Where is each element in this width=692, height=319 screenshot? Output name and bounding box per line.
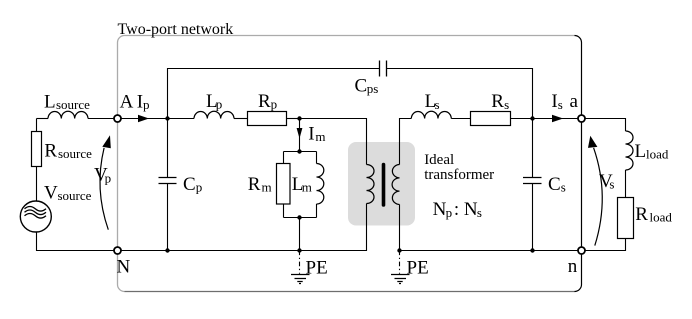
label A and Ip xyxy=(120,91,150,112)
arrowhead Vp xyxy=(102,135,111,148)
inductor Lp xyxy=(194,111,234,118)
svg-text:s: s xyxy=(609,177,614,192)
wire: Rload to node n xyxy=(585,239,626,251)
svg-text:s: s xyxy=(477,205,482,220)
node junction (bottom of Rm Lm parallel) xyxy=(297,215,301,219)
svg-text:p: p xyxy=(446,205,453,220)
label Is and a xyxy=(551,91,578,112)
node junction (secondary PE tap) xyxy=(397,248,401,252)
node N (open circle) xyxy=(114,247,121,254)
wire: junction to node a xyxy=(533,118,579,120)
wire: transformer secondary bottom to PE tap xyxy=(399,205,401,251)
label Vp xyxy=(94,165,111,186)
label Im xyxy=(308,124,325,145)
current arrow Im xyxy=(297,128,303,139)
svg-text:s: s xyxy=(558,97,563,112)
node junction (Cp top tap) xyxy=(165,116,169,120)
voltage arrow Vs (curved) xyxy=(594,148,603,246)
svg-text:N: N xyxy=(117,257,131,278)
svg-text:N: N xyxy=(433,199,447,220)
label Lload xyxy=(635,141,669,162)
resistor Rp xyxy=(248,112,287,126)
svg-text:m: m xyxy=(262,180,272,195)
wire: magnetizing branch down xyxy=(299,119,301,152)
label N xyxy=(117,257,131,278)
label Rs xyxy=(491,91,509,112)
svg-text:a: a xyxy=(570,91,579,112)
resistor Rload xyxy=(618,198,634,239)
ground PE (secondary side) bars xyxy=(391,275,410,284)
svg-text:load: load xyxy=(646,146,669,161)
wire: Lp to Rp xyxy=(234,118,248,120)
label Rload xyxy=(635,204,672,225)
label Np : Ns xyxy=(433,199,482,220)
two-port network boundary box (gray top/left) xyxy=(118,36,575,292)
wire: Vsource to bottom-left corner and to node N xyxy=(37,232,115,251)
wire: Lm bottom lead xyxy=(316,204,318,218)
wire: Ls to Rs xyxy=(451,118,470,120)
wire: Cps branch left vertical xyxy=(168,69,380,119)
svg-text:s: s xyxy=(504,97,509,112)
svg-text:p: p xyxy=(196,180,203,195)
label Vs xyxy=(599,171,614,192)
label Cs xyxy=(548,174,566,195)
ground PE (secondary side) dashed stem xyxy=(399,251,401,274)
svg-text:Ideal: Ideal xyxy=(424,152,454,168)
label Vsource xyxy=(44,182,92,203)
wire: Rm top lead xyxy=(283,152,285,164)
node A (open circle) xyxy=(114,115,121,122)
wire: left rail top (corner down to Rsource) xyxy=(36,119,38,132)
wire: node a to load branch top xyxy=(585,119,626,132)
source Vsource (AC source circle) xyxy=(20,201,51,232)
inductor Lsource xyxy=(48,111,88,118)
wire: secondary top to Ls xyxy=(400,119,412,165)
label Lsource xyxy=(44,92,90,113)
transformer core bar xyxy=(382,165,386,206)
svg-text:R: R xyxy=(635,204,648,225)
wire: parallel loop bottom xyxy=(284,217,317,219)
svg-text:A: A xyxy=(120,91,134,112)
label Rm xyxy=(248,174,272,195)
svg-text:PE: PE xyxy=(306,257,328,278)
label Lm xyxy=(292,174,312,195)
svg-text:s: s xyxy=(435,97,440,112)
label Ideal transformer xyxy=(424,152,494,183)
inductor Lload xyxy=(626,131,634,170)
svg-text:L: L xyxy=(44,92,56,113)
wire: Rsource to Vsource xyxy=(36,167,38,202)
svg-text:R: R xyxy=(491,91,504,112)
resistor Rm xyxy=(277,164,291,205)
inductor Lm xyxy=(317,164,324,205)
svg-text:L: L xyxy=(635,141,647,162)
wire: Lsource to node A xyxy=(88,118,114,120)
label Ls xyxy=(425,91,440,112)
svg-text:p: p xyxy=(143,97,150,112)
node junction (primary PE tap) xyxy=(297,248,301,252)
svg-text:C: C xyxy=(183,174,196,195)
svg-text:p: p xyxy=(105,171,112,186)
svg-text:C: C xyxy=(548,174,561,195)
wire: junction to transformer primary top xyxy=(300,119,367,165)
svg-text:R: R xyxy=(258,91,271,112)
svg-text:I: I xyxy=(308,124,314,145)
ideal transformer shaded background xyxy=(348,142,415,226)
node junction (Cs bottom tap) xyxy=(530,248,534,252)
node junction (top of Rm Lm parallel) xyxy=(297,149,301,153)
svg-text:p: p xyxy=(216,97,223,112)
wire: bottom rail Cp tap to PE tap xyxy=(168,250,300,252)
wire: Cps to right vertical down to Rs junction xyxy=(387,69,533,119)
node a (open circle) xyxy=(578,115,585,122)
resistor Rsource xyxy=(32,132,42,167)
label Cp xyxy=(183,174,202,195)
wire: Cs leads xyxy=(532,119,534,251)
wire: Rs to Cs junction xyxy=(511,118,533,120)
svg-text:source: source xyxy=(56,97,90,112)
label n xyxy=(568,256,578,277)
label Rp xyxy=(258,91,277,112)
Vsource wave symbol xyxy=(25,207,47,219)
svg-text:ps: ps xyxy=(367,81,379,96)
current arrow Ip xyxy=(138,115,149,122)
node n (open circle) xyxy=(578,247,585,254)
wire: Rp to magnetizing junction xyxy=(287,118,300,120)
two-port network boundary box (black right edge) xyxy=(575,36,582,292)
wire: bottom rail PE tap to transformer primary bottom xyxy=(300,204,367,251)
svg-text:Two-port network: Two-port network xyxy=(118,21,234,38)
two-port network boundary box (dark gray bottom edge) xyxy=(125,291,575,293)
label Cps xyxy=(355,75,379,96)
svg-text:PE: PE xyxy=(407,257,429,278)
wire: parallel bottom to ground rail xyxy=(299,218,301,251)
svg-text::: : xyxy=(454,199,459,220)
wire: Lload to Rload xyxy=(625,170,627,198)
arrowhead Vs xyxy=(588,136,597,148)
wire: Cp leads xyxy=(167,119,169,251)
svg-text:R: R xyxy=(44,140,57,161)
resistor Rs xyxy=(471,112,511,126)
transformer secondary winding xyxy=(392,165,399,205)
capacitor Cps xyxy=(380,61,387,77)
svg-text:C: C xyxy=(355,75,368,96)
label Lp xyxy=(206,91,222,112)
svg-text:p: p xyxy=(271,97,278,112)
svg-text:source: source xyxy=(58,188,92,203)
node junction (Cs top tap) xyxy=(530,116,534,120)
current arrow Is xyxy=(552,115,563,122)
capacitor Cp xyxy=(159,178,177,184)
inductor Ls xyxy=(411,111,451,118)
wire: bottom rail secondary PE tap to Cs tap xyxy=(400,250,533,252)
svg-text:s: s xyxy=(561,180,566,195)
node junction (Cp bottom tap) xyxy=(165,248,169,252)
svg-text:transformer: transformer xyxy=(424,167,494,183)
wire: Lm top lead xyxy=(316,152,318,164)
label PE (primary) xyxy=(306,257,328,278)
svg-text:n: n xyxy=(568,256,578,277)
transformer primary winding xyxy=(367,165,375,204)
wire: bottom rail Cs tap to node n xyxy=(533,250,579,252)
wire: node A to first junction xyxy=(121,118,168,120)
label PE (secondary) xyxy=(407,257,429,278)
svg-text:source: source xyxy=(58,146,92,161)
svg-text:V: V xyxy=(44,182,58,203)
label Rsource xyxy=(44,140,92,161)
svg-text:N: N xyxy=(464,199,478,220)
svg-text:R: R xyxy=(248,174,261,195)
wire: parallel loop top xyxy=(284,151,317,153)
node junction (magnetizing tap) xyxy=(297,116,301,120)
wire: source top (left corner to L_source) xyxy=(37,118,49,120)
voltage arrow Vp (curved) xyxy=(100,148,108,230)
capacitor Cs xyxy=(523,178,542,184)
svg-text:load: load xyxy=(650,210,673,225)
wire: Rm bottom lead xyxy=(283,204,285,218)
svg-text:m: m xyxy=(315,129,325,144)
ground PE (primary side) bars xyxy=(291,275,310,284)
wire: bottom rail N to Cp tap xyxy=(121,250,168,252)
wire: junction to Lp xyxy=(168,118,195,120)
ground PE (primary side) dashed stem xyxy=(299,251,301,274)
svg-text:m: m xyxy=(302,180,312,195)
